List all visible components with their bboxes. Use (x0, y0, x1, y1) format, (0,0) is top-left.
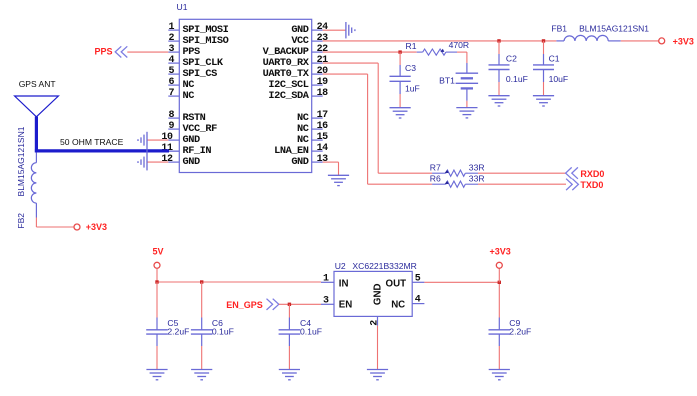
svg-text:2: 2 (370, 320, 381, 326)
svg-text:BLM15AG121SN1: BLM15AG121SN1 (16, 126, 26, 196)
svg-text:16: 16 (317, 121, 329, 132)
svg-text:R6: R6 (430, 173, 441, 183)
svg-text:C2: C2 (506, 54, 517, 64)
svg-text:23: 23 (317, 33, 329, 44)
svg-text:GND: GND (373, 284, 384, 306)
svg-text:5: 5 (168, 66, 174, 77)
svg-text:4: 4 (168, 55, 174, 66)
svg-text:33R: 33R (469, 162, 485, 172)
svg-text:2: 2 (168, 33, 174, 44)
svg-text:0.1uF: 0.1uF (212, 327, 234, 337)
svg-text:U2: U2 (335, 261, 346, 271)
svg-text:15: 15 (317, 132, 329, 143)
svg-text:9: 9 (168, 121, 174, 132)
svg-text:10: 10 (161, 132, 173, 143)
svg-text:FB2: FB2 (16, 213, 26, 229)
svg-text:3: 3 (168, 44, 174, 55)
svg-text:OUT: OUT (386, 279, 407, 290)
svg-text:NC: NC (391, 300, 405, 311)
svg-text:GPS ANT: GPS ANT (19, 79, 56, 89)
svg-text:1uF: 1uF (405, 83, 420, 93)
svg-text:0.1uF: 0.1uF (300, 327, 322, 337)
svg-text:13: 13 (317, 154, 329, 165)
svg-text:BT1: BT1 (439, 75, 455, 85)
svg-text:+3V3: +3V3 (673, 36, 694, 46)
svg-text:470R: 470R (449, 40, 470, 50)
svg-text:TXD0: TXD0 (580, 180, 603, 190)
svg-text:C3: C3 (405, 63, 416, 73)
svg-text:2.2uF: 2.2uF (509, 327, 531, 337)
svg-text:PPS: PPS (94, 46, 112, 56)
svg-text:5V: 5V (152, 247, 163, 257)
svg-text:18: 18 (317, 88, 329, 99)
svg-text:7: 7 (168, 88, 174, 99)
svg-text:10uF: 10uF (549, 74, 569, 84)
svg-text:C1: C1 (549, 54, 560, 64)
svg-text:+3V3: +3V3 (86, 222, 107, 232)
svg-text:BLM15AG121SN1: BLM15AG121SN1 (579, 24, 649, 34)
svg-text:EN: EN (339, 300, 352, 311)
svg-text:4: 4 (415, 295, 421, 306)
svg-text:GND: GND (291, 156, 308, 168)
svg-text:11: 11 (161, 143, 173, 154)
svg-text:21: 21 (317, 55, 329, 66)
svg-text:3: 3 (323, 295, 329, 306)
svg-text:2.2uF: 2.2uF (167, 327, 189, 337)
svg-text:1: 1 (168, 22, 174, 33)
svg-text:12: 12 (161, 154, 173, 165)
svg-text:EN_GPS: EN_GPS (226, 300, 263, 310)
svg-text:33R: 33R (469, 173, 485, 183)
svg-text:GND: GND (183, 156, 200, 168)
svg-text:1: 1 (323, 273, 329, 284)
svg-text:RXD0: RXD0 (580, 169, 604, 179)
svg-text:14: 14 (317, 143, 329, 154)
svg-text:6: 6 (168, 77, 174, 88)
svg-text:5: 5 (415, 273, 421, 284)
svg-text:NC: NC (183, 90, 195, 102)
svg-text:50 OHM TRACE: 50 OHM TRACE (60, 137, 124, 147)
svg-text:FB1: FB1 (551, 24, 567, 34)
svg-text:U1: U1 (177, 2, 188, 12)
svg-text:19: 19 (317, 77, 329, 88)
svg-text:R7: R7 (430, 162, 441, 172)
svg-text:8: 8 (168, 110, 174, 121)
svg-text:24: 24 (317, 22, 329, 33)
svg-text:IN: IN (339, 279, 349, 290)
svg-text:I2C_SDA: I2C_SDA (268, 90, 309, 102)
svg-text:20: 20 (317, 66, 329, 77)
svg-text:XC6221B332MR: XC6221B332MR (352, 261, 417, 271)
svg-text:17: 17 (317, 110, 329, 121)
svg-text:22: 22 (317, 44, 329, 55)
svg-text:+3V3: +3V3 (490, 247, 511, 257)
svg-text:R1: R1 (406, 41, 417, 51)
svg-text:0.1uF: 0.1uF (506, 74, 528, 84)
